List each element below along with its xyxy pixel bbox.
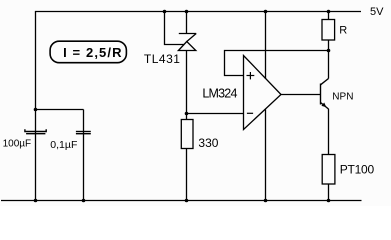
node dot gnd left (34, 199, 38, 203)
resistor 330 (181, 120, 193, 149)
emitter arrowhead (321, 103, 326, 108)
wire inverting input (187, 113, 244, 115)
transistor Q1 NPN (321, 79, 329, 110)
wire TL431 anode to 330 (186, 51, 188, 120)
capacitor C2 0.1uF (76, 132, 91, 134)
node dot R bottom feedback (327, 49, 331, 53)
formula box I = 2,5/R (50, 41, 126, 63)
resistor PT100 (322, 155, 335, 185)
node dot top rail R (327, 10, 331, 14)
node dot inverting input (185, 112, 189, 116)
wire 0.1uF vertical (83, 110, 85, 201)
wire op-amp output to base (281, 94, 321, 96)
node dot top rail TL431 ref (163, 10, 167, 14)
wire collector vertical (328, 51, 330, 79)
wire TL431 cathode (186, 12, 188, 34)
svg-text:100µF: 100µF (3, 139, 32, 150)
node dot gnd 330 (185, 199, 189, 203)
wire left vertical (35, 12, 37, 201)
wire bottom rail GND (1, 200, 362, 202)
svg-text:330: 330 (198, 136, 218, 150)
svg-text:5V: 5V (370, 6, 384, 18)
node dot top rail V+ (264, 10, 268, 14)
svg-text:NPN: NPN (332, 91, 353, 102)
wire R top (328, 12, 330, 20)
node dot gnd V- (264, 199, 268, 203)
wire op-amp V+ supply (265, 12, 267, 79)
resistor R (322, 20, 335, 41)
node dot top rail TL431 cathode (185, 10, 189, 14)
wire top rail 5V (35, 11, 361, 13)
wire PT100 to ground (328, 184, 330, 201)
node dot gnd 0.1uF (82, 199, 86, 203)
node dot gnd PT100 (327, 199, 331, 203)
minus sign (247, 112, 253, 114)
node dot 0.1uF branch (34, 108, 38, 112)
svg-text:LM324: LM324 (202, 86, 237, 100)
wire noninverting input with feedback loop (225, 51, 329, 76)
wire 330 to ground rail (186, 149, 188, 201)
TL431 D1 (178, 34, 196, 51)
svg-text:R: R (339, 25, 347, 37)
wire TL431 ref loop (165, 12, 185, 45)
svg-text:PT100: PT100 (340, 162, 375, 176)
wire op-amp V- to ground (265, 110, 267, 201)
capacitor C1 100uF (25, 129, 46, 134)
op-amp U1 LM324 (244, 56, 282, 130)
plus sign (247, 72, 255, 79)
svg-text:0,1µF: 0,1µF (50, 139, 77, 151)
svg-text:TL431: TL431 (144, 52, 181, 66)
wire emitter vertical to PT100 (328, 109, 330, 155)
wire 0.1uF branch horizontal (36, 109, 84, 111)
wire R bottom to node (328, 40, 330, 51)
svg-text:I = 2,5/R: I = 2,5/R (63, 45, 122, 60)
